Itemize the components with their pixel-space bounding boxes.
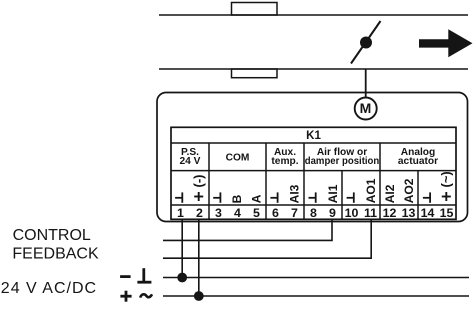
svg-text:AO2: AO2 <box>402 178 416 203</box>
wire damper to motor <box>365 69 367 98</box>
svg-text:7: 7 <box>291 206 298 220</box>
terminal 6 ground symbol <box>270 192 277 202</box>
svg-text:M: M <box>360 100 372 116</box>
svg-text:13: 13 <box>402 206 416 220</box>
svg-text:4: 4 <box>234 206 241 220</box>
wire duct bottom line <box>159 68 468 70</box>
terminal 15 plus symbol <box>442 192 451 201</box>
terminal 1 ground symbol <box>175 192 182 202</box>
junction dot terminal 1 wire <box>177 273 187 283</box>
svg-text:2: 2 <box>196 206 203 220</box>
wire power plus line <box>163 295 469 297</box>
plus polarity symbol <box>120 291 131 302</box>
terminal 3 ground symbol <box>213 192 220 202</box>
svg-text:AO1: AO1 <box>364 178 378 203</box>
svg-text:(-): (-) <box>191 175 206 188</box>
minus polarity symbol <box>120 275 131 278</box>
svg-text:8: 8 <box>310 206 317 220</box>
terminal block K1 grid <box>171 127 456 219</box>
actuator outline box <box>157 93 468 222</box>
terminal 10 ground symbol <box>347 192 354 202</box>
junction dot terminal 2 wire <box>194 291 204 301</box>
svg-text:10: 10 <box>345 206 359 220</box>
svg-text:actuator: actuator <box>398 156 438 167</box>
svg-text:K1: K1 <box>306 130 321 142</box>
svg-text:12: 12 <box>383 206 397 220</box>
motor M1 circle <box>355 98 377 120</box>
svg-text:COM: COM <box>226 152 250 163</box>
svg-text:AI2: AI2 <box>383 184 397 203</box>
wire feedback line to terminal 11 <box>163 219 371 258</box>
svg-text:6: 6 <box>272 206 279 220</box>
svg-text:3: 3 <box>215 206 222 220</box>
wire power minus line <box>163 277 469 279</box>
air flow arrow <box>419 29 473 57</box>
svg-text:AI3: AI3 <box>288 184 302 203</box>
wire control line to terminal 9 <box>163 219 332 240</box>
svg-text:CONTROL: CONTROL <box>13 227 91 244</box>
svg-text:A: A <box>249 194 263 203</box>
wire duct top line <box>159 14 468 16</box>
svg-text:damper position: damper position <box>305 156 380 167</box>
svg-text:11: 11 <box>364 206 377 220</box>
wire terminal 1 to minus line <box>181 219 183 277</box>
svg-text:AI1: AI1 <box>326 184 340 203</box>
svg-text:(~): (~) <box>438 171 453 187</box>
svg-text:24 V: 24 V <box>180 156 201 167</box>
terminal 2 plus symbol <box>194 192 203 201</box>
damper blade pivot <box>360 37 372 49</box>
svg-text:5: 5 <box>253 206 260 220</box>
wire terminal 2 to plus line <box>198 219 200 296</box>
svg-text:24 V AC/DC: 24 V AC/DC <box>1 280 97 297</box>
damper end-stop bottom rectangle <box>232 69 278 78</box>
terminal 8 ground symbol <box>309 192 316 202</box>
svg-text:15: 15 <box>440 206 454 220</box>
svg-text:temp.: temp. <box>271 156 298 167</box>
AC tilde symbol <box>140 294 152 297</box>
damper end-stop top rectangle <box>232 3 278 16</box>
svg-text:FEEDBACK: FEEDBACK <box>12 245 99 262</box>
svg-text:9: 9 <box>329 206 336 220</box>
terminal numbers 1-15 <box>177 206 453 220</box>
svg-text:14: 14 <box>421 206 435 220</box>
svg-text:B: B <box>230 194 244 203</box>
terminal 14 ground symbol <box>423 192 430 202</box>
damper blade <box>351 21 381 64</box>
earth symbol <box>137 268 151 282</box>
svg-text:1: 1 <box>177 206 184 220</box>
